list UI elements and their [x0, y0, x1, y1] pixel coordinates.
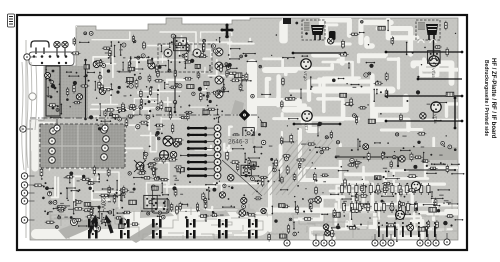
- dash-dot boundary line horizontal: [30, 115, 238, 118]
- caption HF / ZF-Platte / RF / IF board: [490, 58, 496, 138]
- connector comb pins: [187, 125, 221, 179]
- caption Bedruckungsseite / Printed side: [483, 60, 489, 136]
- transistor VT19: [412, 182, 421, 191]
- svg-text:220V~: 220V~: [100, 196, 106, 212]
- board grain texture: [30, 18, 458, 240]
- shield area left (darker): [44, 66, 88, 118]
- edge terminal circles left column: [25, 175, 35, 177]
- terminal circle S: [70, 218, 77, 225]
- transistor VT15 with bus bars: [386, 51, 462, 53]
- transistor VT7 with bus bar: [302, 111, 312, 121]
- edge connector plateau outline: [29, 52, 74, 66]
- corner reference label: [8, 14, 15, 27]
- connector pad groups bottom row: [88, 219, 258, 239]
- mains arrow left: [90, 221, 95, 233]
- left margin trace outlines: [22, 60, 37, 170]
- terminal circles on shield block: [50, 128, 57, 135]
- cross component at board edge: [222, 25, 232, 35]
- transistor VT10 with bus bar: [293, 52, 345, 54]
- gray shield band (bottom-right): [336, 147, 458, 160]
- black component right of T1: [329, 31, 336, 40]
- resistor row bottom-right lower: [342, 201, 417, 213]
- bottom-right components: [341, 132, 465, 242]
- left column components: [45, 65, 96, 120]
- pin header bars bottom-right: [378, 222, 436, 237]
- top-right upper components: [271, 20, 456, 64]
- mounting hole screws: [54, 41, 68, 56]
- component box outline R-group: [46, 66, 60, 116]
- terminal circle H: [93, 225, 100, 232]
- transistor VT14 with bus bars: [386, 95, 462, 97]
- coil can A: [164, 49, 172, 57]
- long wire vertical 2: [174, 36, 176, 112]
- transistor with cross leads: [136, 162, 144, 170]
- svg-text:2646-3: 2646-3: [228, 139, 249, 146]
- diagonal traces group: [252, 140, 333, 195]
- gray mass near mains arrows: [58, 218, 96, 239]
- trimmer T2 with dashed box: [416, 20, 440, 40]
- board number 2646-3: [226, 136, 256, 145]
- transistor VT20: [396, 211, 405, 220]
- terminal circle C: [119, 218, 126, 225]
- gray islands over bottom strip: [140, 206, 174, 218]
- IF left extra components: [95, 41, 149, 127]
- top-right components: [251, 62, 454, 137]
- copper traces (white): [30, 20, 460, 238]
- dashed module box (oscillator): [158, 44, 212, 72]
- bottom-left components: [33, 165, 143, 228]
- empty hole circle left: [29, 93, 36, 100]
- svg-text:VT15: VT15: [431, 68, 436, 78]
- small black cap: [283, 18, 291, 24]
- component box with pads above pad groups: [152, 199, 169, 213]
- bottom-middle components: [136, 128, 268, 227]
- mains arrow right: [108, 221, 112, 233]
- long wire vertical 1: [85, 60, 87, 119]
- tuning diode black diamond: [231, 100, 244, 114]
- pointer line to comb: [222, 160, 262, 196]
- alignment plus circle: [160, 151, 169, 160]
- alignment point circles column: [215, 48, 223, 56]
- alignment cross circle big: [163, 136, 173, 146]
- bottom-mid-right components: [266, 130, 349, 241]
- gray hairline traces bottom strip: [50, 199, 463, 256]
- svg-text:VT10: VT10: [303, 71, 308, 81]
- vertical bar component right 2: [454, 98, 456, 128]
- svg-text:VT14: VT14: [433, 114, 438, 124]
- top-left components: [71, 32, 93, 55]
- cable bracket (top-left): [31, 41, 49, 48]
- board outline inner line: [25, 40, 27, 238]
- resistor row bottom-right upper: [340, 183, 430, 195]
- edge terminal circles bottom rows: [286, 234, 288, 243]
- dark shielding block (bottom-left): [40, 124, 125, 168]
- coil can B: [193, 49, 201, 57]
- bus wire bottom-right: [336, 157, 398, 166]
- trimmer T1 with dashed box: [302, 20, 325, 40]
- vertical bar component right 1: [433, 40, 435, 55]
- PCB board outline: [30, 18, 458, 240]
- IF strip components: [93, 34, 257, 134]
